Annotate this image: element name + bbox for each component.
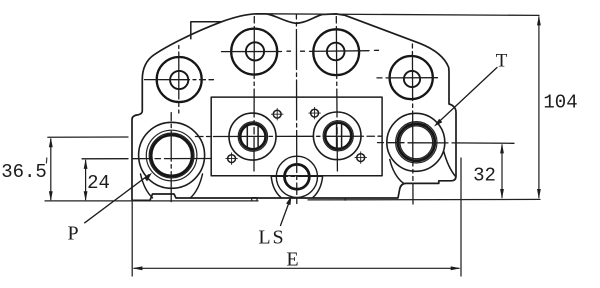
port P horizontal centerline (24 extension): [82, 158, 211, 160]
svg-text:36.5: 36.5: [1, 161, 47, 183]
port B boss: [313, 112, 361, 160]
port P ring 1: [146, 130, 197, 181]
port P skirt right: [191, 174, 203, 198]
port T ring: [396, 122, 437, 163]
ports A/B horizontal centerline: [196, 135, 385, 137]
svg-text:P: P: [67, 223, 78, 245]
top circle 1 inner: [170, 71, 188, 89]
centerline circle4+T vertical: [411, 44, 414, 204]
dimension 32 line: [500, 143, 504, 199]
centerline circle2 vertical: [253, 17, 255, 172]
centerline circle2+3 horizontal: [222, 50, 379, 51]
port P skirt left: [141, 174, 153, 198]
port A spool edge left: [246, 126, 248, 147]
top circle 4 outer: [390, 56, 433, 99]
port P bore: [151, 135, 192, 176]
LS bulge right: [313, 176, 323, 197]
port B ring: [323, 121, 353, 151]
port A bore: [240, 124, 265, 149]
svg-text:E: E: [286, 249, 298, 271]
bottom tick: [344, 198, 346, 200]
hidden tab top-left: [191, 22, 222, 39]
port B spool edge left: [336, 123, 338, 148]
36.5 top extension: [48, 136, 128, 138]
label LS leader: [281, 196, 292, 226]
dimension E line: [132, 266, 460, 270]
svg-text:T: T: [496, 51, 508, 72]
port T boss circle: [387, 113, 445, 171]
LS outer circle: [276, 156, 317, 197]
dimension 36.5 line: [49, 137, 53, 201]
dimension 104 line: [537, 15, 541, 199]
top circle 3 inner: [327, 43, 345, 61]
E left extension: [131, 202, 133, 276]
screw hole bottom-right of rect: [355, 152, 367, 164]
port B bore: [325, 123, 351, 149]
port P vertical centerline: [170, 113, 172, 204]
svg-text:24: 24: [87, 172, 110, 194]
svg-text:32: 32: [473, 165, 496, 187]
main vertical centerline: [295, 15, 297, 204]
label T leader: [434, 68, 497, 127]
stray scan tick: [45, 158, 47, 163]
port T skirt left: [390, 160, 404, 184]
LS bore: [285, 164, 310, 189]
port A ring: [238, 122, 267, 151]
centerline circle1 horizontal: [145, 79, 214, 81]
port A boss: [229, 113, 276, 160]
port T skirt right: [444, 152, 456, 177]
svg-text:LS: LS: [258, 227, 285, 249]
centerline circle1 vertical: [178, 46, 180, 114]
port B spool edge right: [341, 123, 343, 148]
top circle 2 outer: [231, 29, 277, 75]
screw hole top-left of rect: [271, 108, 283, 120]
port A spool edge right: [257, 126, 259, 147]
top circle 2 inner: [246, 42, 264, 60]
centerline circle4 horizontal: [377, 77, 438, 79]
E right extension: [460, 158, 462, 276]
top circle 4 inner: [404, 71, 420, 87]
screw hole top-right of rect: [309, 107, 321, 119]
bottom extension line long: [45, 199, 540, 201]
LS horizontal centerline: [272, 175, 323, 177]
center rectangle: [211, 97, 382, 176]
port P boss circle: [139, 122, 205, 188]
centerline circle3 vertical: [336, 17, 337, 172]
svg-text:104: 104: [543, 92, 577, 114]
label P leader: [85, 173, 152, 223]
bottom notch: [252, 198, 257, 201]
body outline: [132, 14, 456, 201]
port T horizontal centerline (32 extension): [378, 142, 515, 145]
dimension 24 line: [84, 159, 88, 201]
top circle 1 outer: [157, 57, 202, 102]
port T inner ring: [400, 126, 433, 159]
LS bulge left: [271, 176, 281, 197]
top face edge line (extends as 104 extension): [268, 14, 539, 16]
top circle 3 outer: [313, 29, 359, 75]
screw hole bottom-left of rect: [226, 153, 238, 165]
port T bore: [398, 124, 435, 161]
port P ring 2: [149, 133, 194, 178]
